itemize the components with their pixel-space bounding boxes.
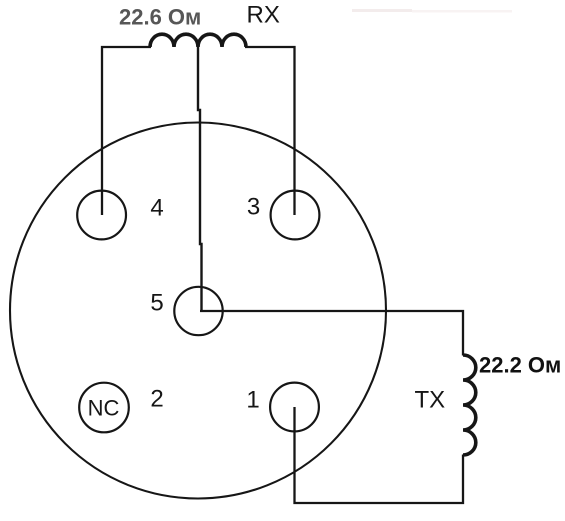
- svg-text:22.2 Ом: 22.2 Ом: [479, 353, 561, 378]
- inductor RX (4 loops, 22.6 Ом): [150, 34, 246, 47]
- wire RX center tap to pin5: [198, 45, 202, 311]
- connector body (big circle): [10, 123, 386, 499]
- svg-text:NC: NC: [88, 396, 120, 421]
- svg-text:2: 2: [150, 386, 163, 413]
- svg-text:22.6 Ом: 22.6 Ом: [119, 5, 201, 30]
- pin 1 circle: [270, 383, 319, 432]
- svg-text:TX: TX: [415, 387, 446, 414]
- svg-text:4: 4: [150, 195, 163, 222]
- svg-text:5: 5: [150, 290, 163, 317]
- wire TX inductor bottom to pin1: [295, 407, 464, 503]
- svg-text:RX: RX: [247, 2, 280, 29]
- wire pin4 to RX inductor left lead: [102, 47, 151, 215]
- pin NC circle: [79, 383, 129, 433]
- wire RX inductor right lead to pin3: [245, 47, 295, 215]
- pin 4 circle: [77, 191, 126, 240]
- inductor TX (4 loops, 22.2 Ом): [463, 355, 476, 455]
- wire pin5 to right rail: [200, 311, 463, 356]
- svg-text:3: 3: [247, 194, 260, 221]
- svg-text:1: 1: [246, 387, 259, 414]
- pin 3 circle: [271, 191, 320, 240]
- scan smudge top right: [352, 9, 412, 12]
- pin 5 circle: [174, 287, 222, 335]
